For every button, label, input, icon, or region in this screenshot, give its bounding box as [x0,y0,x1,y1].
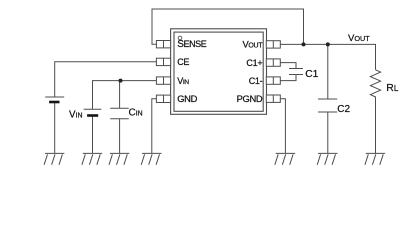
svg-text:PGND: PGND [237,93,263,104]
svg-text:C2: C2 [337,104,350,115]
svg-text:C1+: C1+ [246,58,262,68]
svg-text:C1: C1 [305,69,318,80]
svg-text:VOUT: VOUT [348,33,370,44]
svg-text:SENSE: SENSE [177,39,207,50]
svg-text:GND: GND [177,93,197,104]
svg-text:C1-: C1- [249,76,263,86]
svg-text:CE: CE [177,57,189,67]
svg-text:RL: RL [386,83,399,94]
